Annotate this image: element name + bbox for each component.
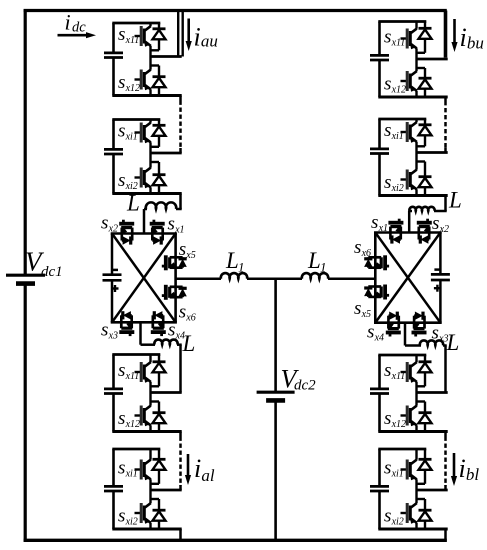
svg-text:x1: x1 bbox=[378, 223, 388, 234]
wire: module B2 top rail bbox=[378, 118, 426, 121]
svg-text:xi2: xi2 bbox=[391, 183, 404, 194]
wire: left DC rail (upper) bbox=[24, 9, 27, 275]
wire: left DC rail (lower) bbox=[24, 284, 27, 542]
arrow i_dc bbox=[58, 32, 97, 38]
svg-text:L: L bbox=[182, 331, 196, 356]
svg-text:xi1: xi1 bbox=[125, 468, 138, 479]
switch s_x4 (right bridge bottom) bbox=[386, 312, 401, 337]
svg-text:s: s bbox=[367, 322, 374, 343]
wire: module A1 left edge bbox=[112, 23, 115, 96]
wire: module B1 bottom rail bbox=[378, 96, 447, 99]
svg-text:s: s bbox=[168, 214, 175, 235]
wire: left bridge right edge bbox=[174, 234, 177, 323]
switch s_x3 (right bridge bottom) bbox=[412, 312, 427, 337]
wire: module D2 midpoint rail bbox=[417, 489, 448, 492]
IGBT s_xi1 of module D2 bbox=[401, 449, 417, 490]
IGBT s_xi1 of module C2 bbox=[135, 449, 151, 490]
inductor L (upper left arm) bbox=[146, 202, 176, 209]
switch s_x6 (left bridge side) bbox=[162, 285, 187, 300]
svg-text:x11: x11 bbox=[391, 37, 406, 48]
arrow i_bu bbox=[451, 19, 457, 52]
wire: module C2 bottom rail bbox=[112, 528, 181, 531]
diagonal wire TR-BL of right bridge bbox=[375, 233, 440, 323]
svg-text:s: s bbox=[354, 298, 361, 319]
wire: center rail down to V_dc2 bbox=[274, 279, 277, 392]
diode of s_xi1 bbox=[151, 449, 166, 484]
inductor L (lower left arm) bbox=[154, 340, 177, 345]
wire: module D2 top rail bbox=[378, 448, 426, 451]
wire: module C1 midpoint rail bbox=[151, 391, 182, 394]
svg-text:x11: x11 bbox=[125, 35, 140, 46]
svg-text:bu: bu bbox=[467, 33, 484, 52]
svg-text:L: L bbox=[126, 191, 140, 216]
capacitor of right bridge bbox=[431, 274, 450, 280]
wire: module C2 left edge bbox=[112, 449, 115, 529]
svg-text:au: au bbox=[201, 32, 218, 51]
svg-text:s: s bbox=[384, 120, 391, 141]
svg-text:s: s bbox=[118, 121, 125, 142]
wire: right bridge bottom node to inductor bbox=[405, 323, 421, 346]
wire: module B2 midpoint rail bbox=[417, 151, 448, 154]
diode of s_xi2 bbox=[417, 162, 432, 196]
diode of s_x12 bbox=[151, 402, 166, 432]
svg-text:1: 1 bbox=[238, 260, 245, 275]
wire: drop from top bus to module A1 bbox=[178, 11, 183, 57]
svg-text:s: s bbox=[118, 24, 125, 45]
svg-text:s: s bbox=[384, 172, 391, 193]
diode of s_xi2 bbox=[151, 162, 166, 194]
svg-text:s: s bbox=[118, 170, 125, 191]
wire: B2 bottom to arm inductor bbox=[434, 196, 447, 212]
wire: module B1 left edge bbox=[378, 22, 381, 98]
svg-text:i: i bbox=[65, 9, 71, 34]
svg-text:L: L bbox=[446, 330, 460, 355]
svg-text:x1: x1 bbox=[174, 224, 184, 235]
svg-text:s: s bbox=[384, 360, 391, 381]
svg-text:x12: x12 bbox=[125, 419, 140, 430]
IGBT s_x11 of module D1 bbox=[401, 355, 417, 393]
IGBT s_xi2 of module A2 bbox=[135, 153, 151, 194]
svg-text:x12: x12 bbox=[391, 419, 406, 430]
svg-text:xi1: xi1 bbox=[391, 468, 404, 479]
IGBT s_x11 of module B1 bbox=[401, 22, 417, 60]
wire: L1 to center node bbox=[247, 278, 302, 281]
diode of s_xi1 bbox=[151, 120, 166, 147]
wire: module B1 midpoint rail bbox=[417, 58, 448, 61]
capacitor of module B2 bbox=[370, 149, 389, 154]
svg-text:x6: x6 bbox=[185, 312, 195, 323]
diagonal wire TR-BL of left bridge bbox=[112, 234, 176, 323]
capacitor of module A2 bbox=[104, 149, 123, 154]
wire: inductor down to module D1 bbox=[443, 346, 447, 393]
diode of s_x11 bbox=[151, 23, 166, 50]
capacitor of module B1 bbox=[370, 55, 389, 60]
svg-text:x12: x12 bbox=[391, 84, 406, 95]
svg-text:s: s bbox=[118, 360, 125, 381]
svg-text:L: L bbox=[307, 248, 321, 273]
minus sign of right bridge capacitor bbox=[434, 268, 440, 271]
svg-text:dc2: dc2 bbox=[294, 377, 316, 393]
svg-text:s: s bbox=[384, 506, 391, 527]
capacitor of module D2 bbox=[370, 486, 389, 491]
IGBT s_x11 of module C1 bbox=[135, 355, 151, 393]
svg-text:x12: x12 bbox=[125, 83, 140, 94]
svg-text:x3: x3 bbox=[108, 330, 118, 341]
diode of s_xi1 bbox=[417, 449, 432, 484]
svg-text:s: s bbox=[354, 237, 361, 258]
wire: left bridge bottom edge bbox=[111, 321, 177, 324]
diode of s_xi2 bbox=[151, 499, 166, 529]
svg-text:i: i bbox=[194, 23, 201, 52]
svg-text:L: L bbox=[225, 248, 239, 273]
wire: left bridge bottom node to inductor bbox=[141, 322, 156, 344]
svg-text:s: s bbox=[118, 458, 125, 479]
arrow i_bl bbox=[451, 453, 457, 486]
dashed wire between C1 and C2 bbox=[179, 432, 182, 491]
diode of s_x11 bbox=[417, 22, 432, 53]
IGBT s_x12 of module A1 bbox=[135, 57, 151, 96]
IGBT s_xi2 of module D2 bbox=[401, 490, 417, 529]
capacitor of module C2 bbox=[104, 486, 123, 491]
svg-text:xi1: xi1 bbox=[125, 131, 138, 142]
wire: right bridge left edge bbox=[374, 233, 377, 323]
dashed wire between B1 and B2 bbox=[444, 97, 447, 153]
svg-text:x5: x5 bbox=[185, 250, 195, 261]
wire: left bridge left edge bbox=[111, 234, 114, 323]
switch s_x2 (right bridge top) bbox=[417, 219, 432, 244]
wire: D2 bottom to bottom bus bbox=[444, 529, 447, 542]
wire: right bridge right edge bbox=[439, 233, 442, 323]
wire: module D2 bottom rail bbox=[378, 528, 447, 531]
wire: inductor to left bridge top node bbox=[144, 209, 147, 234]
wire: module D1 midpoint rail bbox=[417, 391, 448, 394]
diode of s_x12 bbox=[417, 68, 432, 97]
switch s_x4 (left bridge bottom) bbox=[151, 311, 166, 336]
wire: module A1 bottom rail bbox=[112, 94, 181, 97]
wire: module D2 left edge bbox=[378, 449, 381, 529]
svg-text:x6: x6 bbox=[361, 248, 371, 259]
svg-text:s: s bbox=[384, 458, 391, 479]
wire: module A2 midpoint rail bbox=[151, 152, 182, 155]
capacitor of left bridge bbox=[103, 275, 122, 281]
wire: drop from top bus to module B1 bbox=[444, 11, 448, 58]
wire: module A1 top rail bbox=[112, 22, 160, 25]
svg-text:s: s bbox=[384, 27, 391, 48]
plus sign of left bridge capacitor bbox=[112, 285, 119, 292]
wire: module A2 bottom rail bbox=[112, 192, 181, 195]
svg-text:i: i bbox=[460, 23, 467, 52]
svg-text:xi2: xi2 bbox=[125, 516, 138, 527]
IGBT s_x12 of module B1 bbox=[401, 59, 417, 97]
switch s_x5 (right bridge side) bbox=[364, 285, 389, 300]
arrow i_al bbox=[185, 454, 191, 485]
IGBT s_xi2 of module B2 bbox=[401, 153, 417, 196]
diode of s_x12 bbox=[151, 66, 166, 96]
wire: module A2 top rail bbox=[112, 118, 160, 121]
diode of s_x11 bbox=[417, 355, 432, 386]
inductor L (upper right arm) bbox=[409, 207, 434, 211]
svg-text:s: s bbox=[179, 239, 186, 260]
inductor L1 (left) bbox=[221, 273, 247, 279]
switch s_x5 (left bridge side) bbox=[162, 255, 187, 270]
wire: right bridge bottom edge bbox=[374, 321, 442, 324]
svg-text:al: al bbox=[201, 466, 215, 485]
inductor L1 (right) bbox=[302, 273, 328, 279]
switch s_x1 (right bridge top) bbox=[388, 219, 403, 244]
wire: module D1 left edge bbox=[378, 355, 381, 432]
wire: module B2 left edge bbox=[378, 119, 381, 196]
svg-text:s: s bbox=[118, 72, 125, 93]
svg-text:x2: x2 bbox=[108, 223, 118, 234]
IGBT s_xi2 of module C2 bbox=[135, 490, 151, 529]
svg-text:1: 1 bbox=[320, 260, 327, 275]
wire: inductor down to module C1 bbox=[177, 345, 182, 393]
wire: module D1 bottom rail bbox=[378, 430, 447, 433]
svg-text:s: s bbox=[371, 212, 378, 233]
svg-text:s: s bbox=[384, 74, 391, 95]
IGBT s_xi1 of module B2 bbox=[401, 119, 417, 153]
wire: L1 to right bridge node bbox=[328, 278, 375, 281]
svg-text:s: s bbox=[118, 408, 125, 429]
wire: left bridge node to L1 bbox=[176, 278, 221, 281]
dashed wire between D1 and D2 bbox=[444, 432, 447, 491]
diagonal wire TL-BR of right bridge bbox=[375, 233, 440, 323]
svg-text:s: s bbox=[101, 320, 108, 341]
DC source V_dc1 bbox=[6, 275, 45, 283]
switch s_x3 (left bridge bottom) bbox=[119, 311, 134, 336]
svg-text:xi2: xi2 bbox=[391, 516, 404, 527]
IGBT s_x11 of module A1 bbox=[135, 23, 151, 57]
wire: right bridge top edge bbox=[374, 231, 442, 234]
dashed wire between A1 and A2 bbox=[179, 96, 182, 154]
wire: module A1 midpoint rail bbox=[151, 55, 182, 58]
wire: module C2 top rail bbox=[112, 448, 160, 451]
svg-text:i: i bbox=[459, 454, 466, 483]
capacitor of module D1 bbox=[370, 389, 389, 394]
svg-text:dc1: dc1 bbox=[41, 264, 63, 280]
svg-text:xi1: xi1 bbox=[391, 131, 404, 142]
capacitor of module C1 bbox=[104, 389, 123, 394]
svg-text:i: i bbox=[194, 454, 201, 483]
wire: A2 bottom to arm inductor bbox=[176, 194, 182, 210]
wire: C2 bottom to bottom bus bbox=[179, 529, 182, 542]
wire: left bridge top edge bbox=[111, 232, 177, 235]
svg-text:x11: x11 bbox=[391, 371, 406, 382]
minus sign of left bridge capacitor bbox=[112, 269, 118, 272]
switch s_x6 (right bridge side) bbox=[364, 255, 389, 270]
wire: module B1 top rail bbox=[378, 20, 426, 23]
svg-text:x2: x2 bbox=[439, 224, 449, 235]
switch s_x1 (left bridge top) bbox=[150, 220, 165, 245]
svg-text:s: s bbox=[168, 320, 175, 341]
IGBT s_x12 of module D1 bbox=[401, 393, 417, 432]
IGBT s_x12 of module C1 bbox=[135, 393, 151, 432]
diagonal wire TL-BR of left bridge bbox=[112, 234, 176, 323]
diode of s_xi1 bbox=[417, 119, 432, 146]
wire: module D1 top rail bbox=[378, 354, 426, 357]
wire: module A2 left edge bbox=[112, 120, 115, 194]
wire: module C1 top rail bbox=[112, 353, 160, 356]
wire: bottom DC bus bbox=[24, 539, 447, 542]
diode of s_x11 bbox=[151, 355, 166, 387]
svg-text:bl: bl bbox=[466, 465, 480, 484]
diode of s_xi2 bbox=[417, 499, 432, 529]
svg-text:s: s bbox=[179, 302, 186, 323]
inductor L (lower right arm) bbox=[420, 340, 443, 345]
DC source V_dc2 bbox=[257, 392, 295, 400]
capacitor of module A1 bbox=[104, 53, 123, 58]
svg-text:L: L bbox=[448, 188, 462, 213]
wire: module C2 midpoint rail bbox=[151, 489, 182, 492]
plus sign of right bridge capacitor bbox=[434, 285, 441, 292]
wire: V_dc2 down to bottom bus bbox=[274, 400, 277, 541]
wire: top DC bus bbox=[24, 9, 447, 12]
svg-text:x4: x4 bbox=[374, 332, 384, 343]
diode of s_x12 bbox=[417, 402, 432, 432]
arrow i_au bbox=[186, 19, 192, 52]
svg-text:x11: x11 bbox=[125, 371, 140, 382]
wire: module C1 bottom rail bbox=[112, 430, 181, 433]
switch s_x2 (left bridge top) bbox=[119, 220, 134, 245]
svg-text:s: s bbox=[384, 408, 391, 429]
svg-text:s: s bbox=[118, 506, 125, 527]
svg-text:s: s bbox=[101, 213, 108, 234]
wire: inductor to right bridge top node bbox=[409, 211, 412, 233]
svg-text:dc: dc bbox=[72, 20, 86, 36]
svg-text:x5: x5 bbox=[361, 309, 371, 320]
wire: module C1 left edge bbox=[112, 355, 115, 432]
svg-text:s: s bbox=[432, 213, 439, 234]
wire: module B2 bottom rail bbox=[378, 194, 447, 197]
IGBT s_xi1 of module A2 bbox=[135, 120, 151, 154]
